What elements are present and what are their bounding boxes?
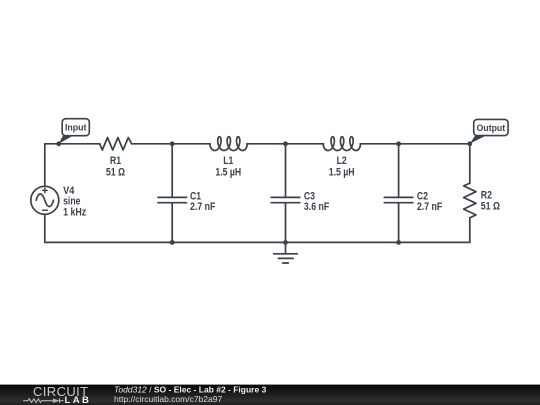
wire C3 to L2 bbox=[286, 143, 324, 145]
node C1 top bbox=[170, 141, 175, 146]
V4 sine wave bbox=[36, 194, 53, 207]
output label box bbox=[474, 119, 508, 135]
logo diode bbox=[53, 398, 60, 403]
svg-text:3.6 nF: 3.6 nF bbox=[304, 201, 330, 213]
node C2 top bbox=[396, 141, 401, 146]
ground bbox=[285, 242, 287, 253]
capacitor C1 bbox=[158, 196, 187, 198]
inductor L2 bbox=[323, 137, 360, 151]
input label box bbox=[62, 119, 89, 136]
svg-text:L2: L2 bbox=[337, 155, 347, 167]
svg-text:1 kHz: 1 kHz bbox=[63, 206, 86, 218]
node C2 bottom bbox=[396, 240, 401, 245]
svg-text:http://circuitlab.com/c7b2a97: http://circuitlab.com/c7b2a97 bbox=[114, 394, 222, 404]
svg-text:1.5 µH: 1.5 µH bbox=[329, 166, 355, 178]
svg-text:Output: Output bbox=[477, 123, 506, 134]
svg-text:LAB: LAB bbox=[65, 395, 92, 405]
svg-text:Todd312 / SO - Elec - Lab #2 -: Todd312 / SO - Elec - Lab #2 - Figure 3 bbox=[114, 384, 267, 394]
wire right rail lower bbox=[469, 218, 471, 243]
capacitor C2 bbox=[384, 196, 413, 198]
output label tail bbox=[470, 135, 487, 144]
wire C2 leads bbox=[398, 144, 400, 198]
svg-text:2.7 nF: 2.7 nF bbox=[190, 201, 216, 213]
node input bbox=[56, 141, 61, 146]
wire C3 leads bbox=[285, 144, 287, 198]
wire R1 to C1 bbox=[132, 143, 173, 145]
resistor R2 bbox=[464, 183, 476, 218]
wire bottom rail bbox=[45, 241, 470, 243]
svg-text:51 Ω: 51 Ω bbox=[481, 200, 500, 212]
inductor L1 bbox=[210, 137, 247, 151]
wire L2 to C2 bbox=[360, 143, 398, 145]
V4 minus sign bbox=[42, 209, 47, 211]
wire C1 to L1 bbox=[172, 143, 210, 145]
svg-text:51 Ω: 51 Ω bbox=[106, 166, 125, 178]
node C1 bottom bbox=[170, 240, 175, 245]
node output bbox=[467, 141, 472, 146]
resistor R1 bbox=[100, 138, 132, 151]
wire right rail upper bbox=[469, 144, 471, 183]
logo resistor zigzag and diode bbox=[23, 398, 63, 403]
input label tail bbox=[59, 135, 74, 144]
wire C2 to output bbox=[399, 143, 470, 145]
wire C1 leads bbox=[171, 144, 173, 198]
node C3 bottom bbox=[283, 240, 288, 245]
svg-text:1.5 µH: 1.5 µH bbox=[215, 166, 241, 178]
svg-text:R1: R1 bbox=[110, 155, 121, 167]
node C3 top bbox=[283, 141, 288, 146]
svg-text:Input: Input bbox=[65, 123, 87, 134]
wire left rail lower bbox=[44, 214, 46, 242]
svg-text:2.7 nF: 2.7 nF bbox=[417, 201, 443, 213]
wire left rail upper bbox=[44, 144, 46, 187]
svg-text:L1: L1 bbox=[223, 155, 233, 167]
wire top left segment bbox=[45, 143, 100, 145]
capacitor C3 bbox=[271, 196, 300, 198]
voltage source V4 circle bbox=[31, 186, 59, 214]
V4 plus sign bbox=[43, 188, 48, 193]
wire L1 to C3 bbox=[247, 143, 286, 145]
